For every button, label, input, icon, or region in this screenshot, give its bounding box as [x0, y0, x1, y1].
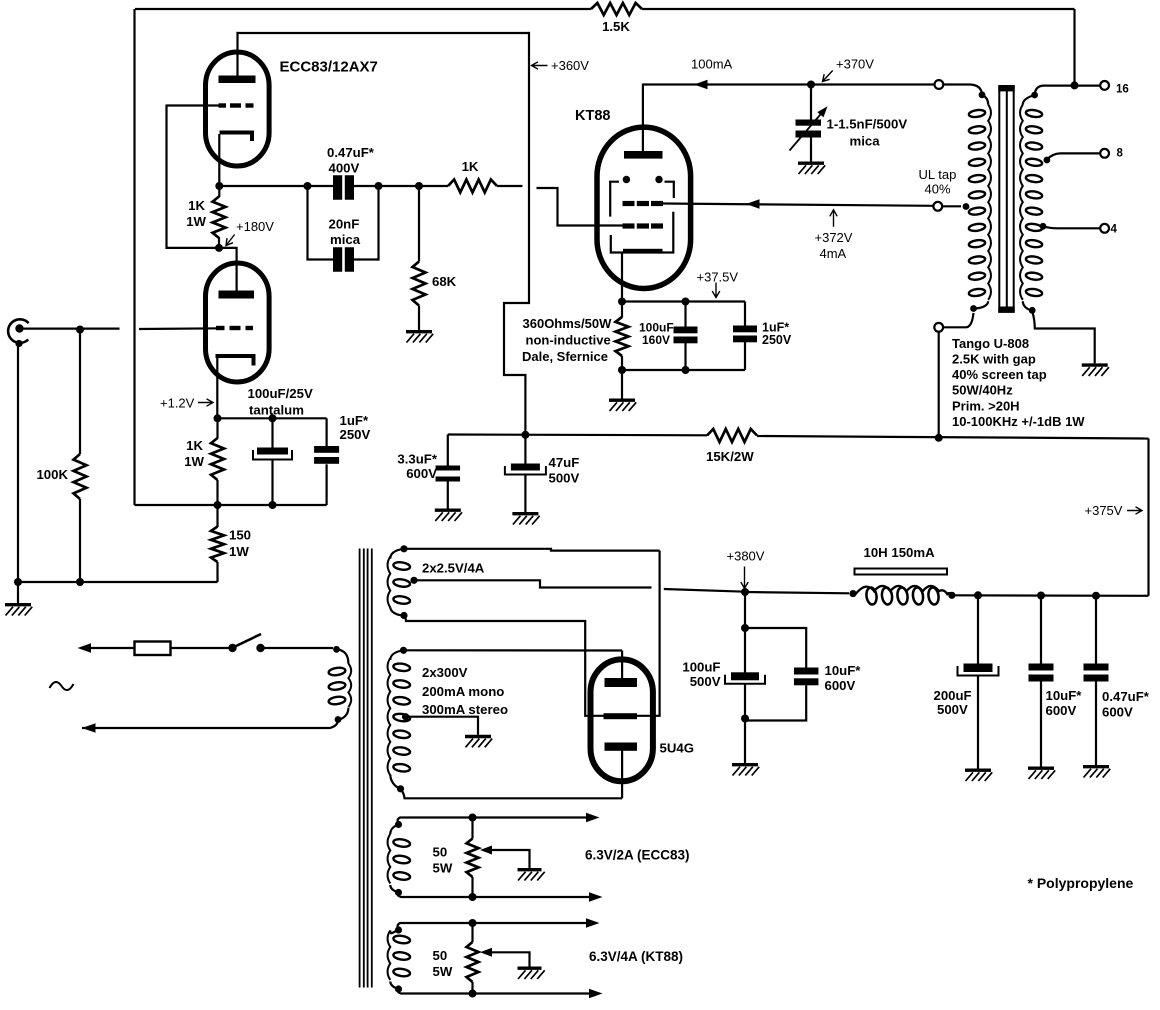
ground: 3.3uF — [435, 510, 462, 521]
wire: 2.5V tap lead (W2) — [414, 580, 652, 587]
svg-text:200uF: 200uF — [934, 688, 972, 703]
node: 1K bottom junction — [214, 501, 222, 509]
node: 0.47uF junction — [1092, 592, 1100, 600]
wire: pot bottom lead — [471, 982, 473, 994]
svg-text:40% screen tap: 40% screen tap — [952, 367, 1047, 382]
capacitor 0.47uF* 600V (out) — [1084, 664, 1109, 682]
PT 6.3V winding — [388, 930, 411, 980]
wire: OPT primary top lead — [943, 85, 988, 105]
capacitor 1uF* 250V (cathode) — [314, 446, 339, 464]
node: +380V junction — [741, 588, 749, 596]
ground: 300V center tap — [465, 737, 492, 748]
svg-text:50: 50 — [433, 845, 448, 860]
label 40% — [925, 182, 951, 197]
capacitor 3.3uF* 600V — [436, 466, 461, 482]
tube V2 KT88 envelope — [597, 127, 691, 288]
tube V3 5U4G envelope — [591, 659, 653, 781]
beam dot left — [623, 176, 630, 183]
ground: first filter — [732, 765, 759, 776]
wire: filament right vertical — [637, 551, 660, 716]
label 600V (0.47uF out) — [1102, 705, 1133, 720]
svg-text:100mA: 100mA — [691, 57, 733, 72]
svg-text:600V: 600V — [1046, 703, 1077, 718]
label 0.47uF* — [327, 145, 375, 160]
svg-text:1W: 1W — [184, 454, 204, 469]
svg-text:10-100KHz +/-1dB 1W: 10-100KHz +/-1dB 1W — [952, 414, 1085, 429]
svg-text:+37.5V: +37.5V — [697, 270, 739, 285]
label 10uF* (out) — [1046, 688, 1083, 703]
label non-inductive — [526, 333, 611, 348]
wire: 4 ohm lead — [1040, 223, 1101, 230]
svg-text:4: 4 — [1111, 223, 1118, 235]
wire: 20nF loop left — [308, 186, 334, 260]
label 300mA stereo — [422, 702, 508, 717]
wire: B+ rail right vertical — [1147, 439, 1149, 596]
label 5W — [433, 964, 453, 979]
PT 2.5V winding — [388, 557, 411, 608]
label 68K — [432, 274, 457, 289]
ground: humdinger — [518, 870, 545, 881]
svg-text:+1.2V: +1.2V — [160, 396, 195, 411]
node: 100K ground junction — [76, 578, 84, 586]
arrow to +370V node — [823, 71, 833, 82]
wire: after 0.47uF — [354, 185, 449, 187]
svg-text:Tango U-808: Tango U-808 — [952, 336, 1029, 351]
label 1W (upper) — [186, 214, 206, 229]
anode bar 5U4G bottom — [605, 743, 638, 751]
wire: heater bottom wire — [398, 989, 597, 994]
wire: 5U4G bottom anode lead — [621, 751, 623, 799]
anode bar V1a — [219, 76, 256, 84]
node: 2.5V tap dot — [410, 577, 417, 584]
svg-text:0.47uF*: 0.47uF* — [1102, 689, 1150, 704]
node: heater bottom dot — [390, 982, 402, 993]
node: 300V bottom dot — [390, 775, 404, 793]
label 1.5K — [602, 19, 630, 34]
input jack circle — [8, 319, 28, 343]
label * Polypropylene — [1028, 875, 1134, 891]
capacitor 100uF 160V — [674, 327, 698, 344]
ground: input — [5, 605, 32, 616]
wire: 1uF/250V top lead — [744, 302, 746, 327]
capacitor trimmer plates — [796, 120, 822, 138]
label +370V — [836, 57, 874, 72]
resistor 68K — [413, 262, 426, 306]
capacitor 100uF/25V tantalum — [253, 448, 292, 460]
potentiometer 50 5W — [467, 839, 479, 878]
label +180V — [236, 219, 274, 234]
wire: 47uF bottom lead — [524, 474, 526, 512]
svg-text:250V: 250V — [762, 333, 792, 347]
wire: 10uF top lead — [1040, 596, 1042, 665]
svg-text:+180V: +180V — [236, 219, 274, 234]
wire: 10uF bottom lead — [1040, 682, 1042, 767]
wire: cath net bottom bus — [622, 369, 745, 371]
label 15K/2W — [706, 449, 754, 464]
svg-text:3.3uF*: 3.3uF* — [397, 452, 437, 467]
svg-text:5W: 5W — [433, 964, 453, 979]
filament bar 5U4G — [604, 713, 638, 719]
label 160V — [642, 333, 670, 347]
wire: input jack down lead — [17, 344, 19, 583]
label 400V — [329, 161, 360, 176]
svg-text:+372V: +372V — [815, 230, 853, 245]
svg-text:6.3V/4A (KT88): 6.3V/4A (KT88) — [589, 949, 683, 964]
label 1W (lower) — [184, 454, 204, 469]
label 500V (100uF) — [690, 674, 721, 689]
wire: cathode res top lead — [218, 186, 220, 197]
wire: switch to primary — [265, 647, 334, 649]
label 500V (47uF) — [549, 471, 580, 486]
control grid g1 dashes — [623, 223, 664, 228]
label 1K (lower) — [186, 438, 203, 453]
svg-text:20nF: 20nF — [329, 217, 360, 232]
node: pot bottom junction — [469, 990, 477, 998]
label 1K (grid stopper) — [462, 159, 479, 174]
label 600V (first) — [825, 678, 856, 693]
wire: crossover to KT88 grid — [537, 188, 635, 226]
arrowhead AC top (points left) — [78, 643, 92, 653]
wire: V1b 1K top lead — [216, 418, 218, 438]
label 6.3V/4A (KT88) — [589, 949, 683, 964]
wire: wiper to ground — [491, 850, 530, 868]
ground: KT88 cathode — [609, 400, 636, 411]
wire: V1b cathode lead — [216, 358, 218, 419]
switch pole dot right — [256, 644, 264, 652]
node: pot top junction — [469, 814, 477, 822]
pot wiper arrow — [480, 948, 492, 957]
label 100uF/25V — [248, 386, 313, 401]
wire: 360 bottom lead — [621, 356, 623, 370]
arrowhead heater top — [586, 918, 600, 928]
resistor 15K/2W — [707, 429, 757, 442]
wire: OPT primary bottom lead — [943, 301, 988, 327]
arrow +1.2V — [198, 399, 213, 406]
wire: cath net top bus — [622, 300, 745, 302]
label Prim. &gt;20H — [952, 398, 1020, 413]
label 2x2.5V/4A — [422, 561, 485, 576]
wire: 300V top lead — [404, 649, 623, 651]
node: input ground junction — [14, 578, 22, 586]
wire: pot top lead — [471, 818, 473, 839]
svg-text:UL tap: UL tap — [919, 167, 957, 182]
node: first filter bottom — [741, 715, 749, 723]
beam dot right — [655, 176, 662, 183]
node: 300V top dot — [390, 647, 407, 660]
svg-text:600V: 600V — [1102, 705, 1133, 720]
wire: bottom ground bus — [18, 581, 218, 583]
arrow +375V right — [1127, 507, 1142, 514]
svg-text:360Ohms/50W: 360Ohms/50W — [523, 316, 613, 331]
wire: 200uF bottom lead — [977, 676, 979, 769]
label 10H 150mA — [864, 545, 936, 560]
wire: B+ rail right — [757, 436, 1149, 439]
label 4 — [1111, 223, 1118, 235]
label mica — [330, 232, 361, 247]
grid dashes V1b — [216, 326, 253, 330]
label Dale, Sfernice — [522, 349, 608, 364]
node: +180V junction — [215, 244, 223, 252]
OPT core — [998, 85, 1014, 313]
wire: PT primary top curl — [333, 646, 348, 664]
arrowhead 100mA (points left) — [694, 80, 708, 90]
label +1.2V — [160, 396, 195, 411]
svg-text:0.47uF*: 0.47uF* — [327, 145, 375, 160]
svg-text:100uF/25V: 100uF/25V — [248, 386, 313, 401]
wire: fuse to switch — [171, 647, 230, 649]
label 600V (3.3uF) — [406, 466, 437, 481]
label 20nF — [329, 217, 360, 232]
wire: V1a anode lead — [236, 32, 238, 77]
wire: wiper to ground — [491, 952, 530, 966]
grid dashes V1a — [219, 103, 254, 107]
wire: 150 top lead — [216, 505, 218, 527]
svg-text:500V: 500V — [690, 674, 721, 689]
wire: 1K to crossover — [497, 185, 523, 187]
wire: +380V feed — [664, 589, 745, 592]
label 5W — [433, 861, 453, 876]
cathode V1b — [216, 356, 254, 366]
pot wiper arrow — [480, 846, 492, 855]
svg-text:Prim. >20H: Prim. >20H — [952, 398, 1020, 413]
wire: tantalum top lead — [271, 418, 273, 448]
wire: 2.5V bottom lead (W3) — [404, 616, 604, 716]
svg-text:500V: 500V — [937, 702, 968, 717]
wire: trimmer bottom lead — [810, 138, 812, 162]
label +37.5V — [697, 270, 739, 285]
wire: first filter bottom bus — [745, 685, 806, 720]
svg-text:50W/40Hz: 50W/40Hz — [952, 383, 1013, 398]
label ECC83/12AX7 — [280, 59, 378, 76]
svg-text:10uF*: 10uF* — [825, 663, 862, 678]
wire: 100uF/500V mid lead — [744, 628, 746, 673]
label tantalum — [249, 403, 304, 418]
label 3.3uF* — [397, 452, 437, 467]
label 100K — [36, 467, 68, 482]
label 40% screen tap — [952, 367, 1047, 382]
svg-text:15K/2W: 15K/2W — [706, 449, 754, 464]
svg-text:1K: 1K — [188, 198, 205, 213]
node: KT88 cathode top junction — [618, 298, 626, 306]
svg-text:10H 150mA: 10H 150mA — [864, 545, 936, 560]
svg-text:1K: 1K — [462, 159, 479, 174]
ground: trimmer — [798, 163, 825, 174]
svg-text:68K: 68K — [432, 274, 457, 289]
wire: choke to B+ corner — [952, 594, 1149, 597]
label KT88 — [575, 108, 610, 124]
label ~ (AC) — [50, 682, 74, 690]
anode bar 5U4G top — [605, 678, 638, 687]
node: 10uF junction — [1037, 592, 1045, 600]
label 50 — [433, 845, 448, 860]
label 10-100KHz — [952, 414, 1085, 429]
wire: 2.5V top lead (W1) — [404, 549, 660, 551]
node: 68K junction — [415, 182, 423, 190]
node: 100uF/160V bottom junction — [682, 366, 690, 374]
wire: anode out bus — [219, 185, 333, 187]
label 5U4G — [660, 741, 694, 756]
label 2x300V — [422, 665, 468, 680]
svg-text:250V: 250V — [340, 427, 371, 442]
arrowhead heater bottom — [589, 989, 603, 999]
svg-text:+375V: +375V — [1085, 503, 1123, 518]
label mica (trimmer) — [850, 134, 881, 149]
node: first filter top — [741, 624, 749, 632]
svg-text:160V: 160V — [642, 333, 670, 347]
svg-text:1W: 1W — [186, 214, 206, 229]
svg-text:mica: mica — [330, 232, 361, 247]
node: heater top dot — [390, 821, 402, 834]
wire: V1a grid to +180V node — [167, 105, 217, 248]
PT core — [360, 549, 372, 988]
resistor 100K — [74, 454, 87, 499]
svg-text:+360V: +360V — [551, 58, 589, 73]
wire: heater bottom wire — [398, 893, 597, 898]
tube V1b ECC83 lower envelope — [206, 263, 270, 382]
wire: 20nF loop right — [354, 186, 379, 260]
node: heater top dot — [390, 926, 402, 933]
label 47uF — [549, 455, 580, 470]
wire: AC bottom — [82, 721, 338, 728]
label 150 — [229, 528, 251, 543]
wire: 100uF/500V gnd lead — [744, 719, 746, 764]
PT 300V winding — [388, 658, 411, 775]
resistor 1K 1W (V1b cathode) — [211, 438, 224, 480]
node: coupling left junction — [304, 182, 312, 190]
resistor 1.5K (feedback) — [591, 3, 642, 15]
anode bar KT88 — [624, 151, 663, 159]
svg-text:1W: 1W — [229, 544, 249, 559]
label +375V — [1085, 503, 1123, 518]
node: tantalum bottom junction — [269, 501, 277, 509]
wire: 1uF/250V bottom lead — [744, 342, 746, 370]
wire: KT88 anode to OPT — [643, 83, 935, 85]
wire: 300V bottom lead — [401, 789, 623, 799]
svg-text:10uF*: 10uF* — [1046, 688, 1083, 703]
node: OPT B+ junction — [935, 434, 943, 442]
capacitor 10uF* 600V (first) — [794, 668, 819, 686]
OPT secondary winding — [1020, 105, 1043, 300]
wire: cathode net bottom bus — [135, 504, 327, 506]
input jack center dot — [15, 324, 23, 332]
svg-text:2x2.5V/4A: 2x2.5V/4A — [422, 561, 485, 576]
capacitor 47uF 500V — [505, 464, 546, 475]
switch lever — [235, 634, 261, 647]
label 50W/40Hz — [952, 383, 1013, 398]
label UL tap — [919, 167, 957, 182]
svg-text:+370V: +370V — [836, 57, 874, 72]
wire: top feedback left segment — [135, 8, 591, 10]
svg-text:ECC83/12AX7: ECC83/12AX7 — [280, 59, 378, 76]
svg-text:6.3V/2A (ECC83): 6.3V/2A (ECC83) — [585, 848, 690, 863]
PT primary bottom dot — [335, 708, 349, 723]
wire: AC top to fuse — [89, 647, 135, 649]
arrow to +180V node — [226, 235, 235, 246]
label 200uF — [934, 688, 972, 703]
terminal: OPT primary bottom — [934, 323, 943, 332]
node: 200uF junction — [974, 591, 982, 599]
svg-text:100K: 100K — [36, 467, 68, 482]
arrowhead heater bottom — [589, 892, 603, 902]
svg-text:1.5K: 1.5K — [602, 19, 630, 34]
ground: OPT secondary — [1082, 365, 1109, 376]
terminal: UL tap — [933, 202, 942, 211]
wire: 150 bottom lead — [216, 562, 218, 582]
terminal: OPT primary top — [935, 80, 944, 89]
wire: cathode net top bus — [218, 417, 327, 419]
svg-text:5U4G: 5U4G — [660, 741, 694, 756]
label +360V with left arrow — [532, 58, 590, 73]
wire: OPT secondary top lead — [1023, 86, 1100, 105]
wire: 1uF bottom lead — [326, 464, 328, 505]
anode bar V1b — [219, 291, 255, 299]
svg-text:300mA stereo: 300mA stereo — [422, 702, 508, 717]
label 1-1.5nF/500V — [827, 117, 908, 132]
wire: 8 ohm lead — [1044, 153, 1101, 163]
arrowhead heater top — [586, 813, 600, 823]
wire: V1b 1K bottom lead — [216, 480, 218, 505]
svg-text:40%: 40% — [925, 182, 951, 197]
label 1K (upper) — [188, 198, 205, 213]
arrow +37.5V down — [712, 283, 720, 298]
svg-text:1K: 1K — [186, 438, 203, 453]
ground: 68K — [406, 332, 433, 343]
svg-text:100uF: 100uF — [682, 660, 720, 675]
label 6.3V/2A (ECC83) — [585, 848, 690, 863]
terminal: 8 ohm — [1100, 149, 1109, 158]
wire: 5U4G top anode lead — [621, 651, 623, 679]
label +372V — [815, 230, 853, 245]
label Tango U-808 — [952, 336, 1029, 351]
node: 47uF junction — [521, 431, 529, 439]
arrow +372V up — [830, 210, 837, 227]
wire: input to grid (left of crossover) — [20, 328, 120, 330]
node: 16 ohm feedback junction — [1071, 81, 1079, 89]
wire: OPT bottom terminal to B+ rail — [938, 332, 940, 438]
screen grid g2 dashes — [623, 201, 664, 206]
node: tantalum top junction — [269, 414, 277, 422]
svg-text:50: 50 — [433, 948, 448, 963]
wire: 0.47uF top lead — [1095, 596, 1097, 664]
ground: humdinger — [518, 968, 545, 979]
label 1W (150) — [229, 544, 249, 559]
ground: 200uF — [965, 770, 992, 781]
wire: UL tap lead — [942, 203, 969, 210]
cathode bar KT88 — [623, 249, 663, 254]
wire: tantalum bottom lead — [271, 459, 273, 505]
wire: +360V vertical rail — [504, 32, 529, 435]
label 600V (10uF out) — [1046, 703, 1077, 718]
wire: pot bottom lead — [471, 877, 473, 897]
label 100uF (500V) — [682, 660, 720, 675]
label 8 — [1117, 148, 1124, 160]
wire: +380V to choke — [745, 592, 849, 593]
wire: 68K top lead — [418, 186, 420, 262]
label 1uF* (KT88) — [762, 321, 789, 335]
node: pot top junction — [469, 919, 477, 927]
svg-text:600V: 600V — [406, 466, 437, 481]
node: choke right dot — [946, 592, 956, 599]
node: 2.5V bottom dot — [390, 607, 407, 619]
wire: 300V center tap lead — [406, 717, 479, 735]
capacitor 1uF* 250V (KT88) — [733, 326, 757, 343]
node: 100uF/160V top junction — [682, 298, 690, 306]
terminal: 16 ohm — [1100, 81, 1109, 90]
cathode bracket KT88 — [611, 212, 674, 253]
wire: 100uF/500V bot lead — [744, 684, 746, 719]
wire: first filter top bus — [745, 628, 806, 668]
wire: 100K top lead — [79, 330, 81, 455]
